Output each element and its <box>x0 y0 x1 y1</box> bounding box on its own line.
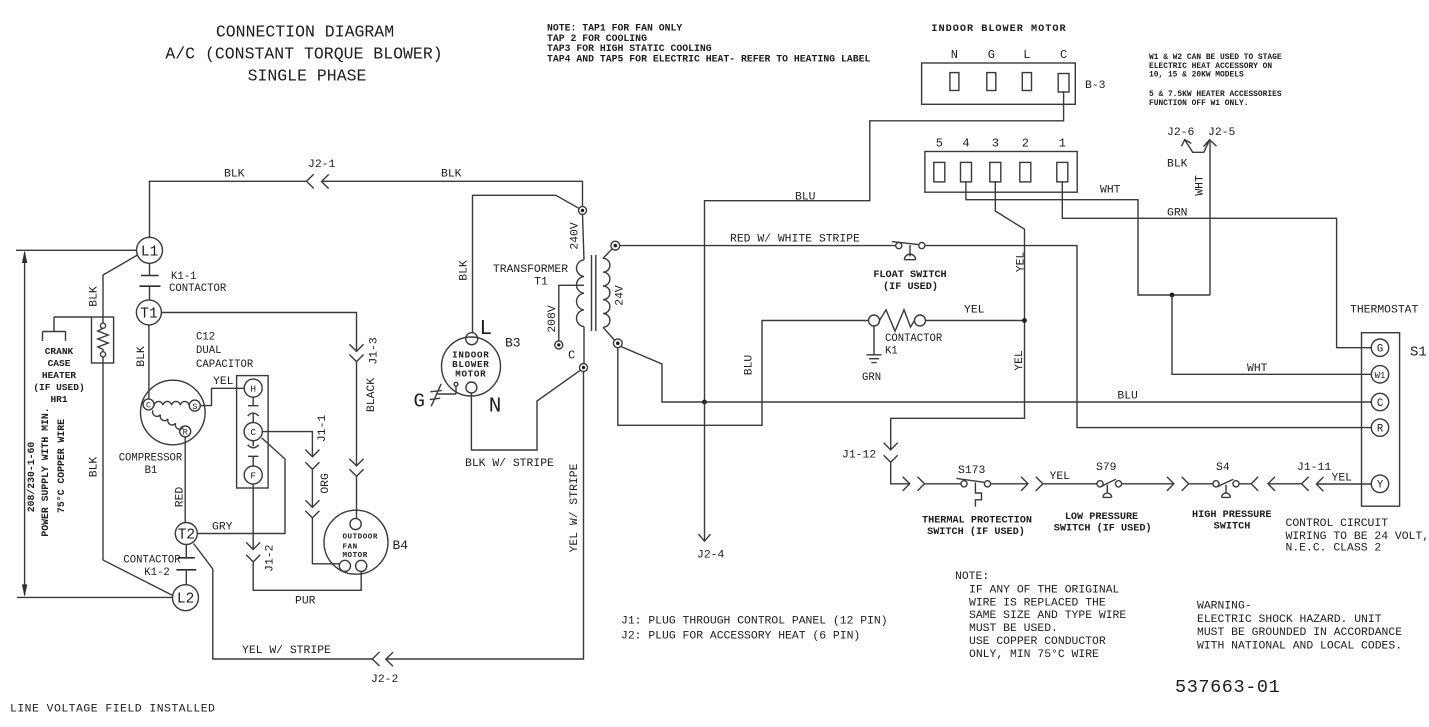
svg-text:BLU: BLU <box>795 192 816 204</box>
switch S4 high pressure <box>1213 479 1239 497</box>
svg-text:BLK W/ STRIPE: BLK W/ STRIPE <box>465 458 554 470</box>
wire YEL compressor S to capacitor H <box>200 388 244 405</box>
ground symbol contactor K1 <box>867 326 882 363</box>
wire PUR to fan motor lower-right terminal <box>253 562 361 590</box>
wire GRY T2 to capacitor C <box>197 438 285 534</box>
svg-text:FAN: FAN <box>343 543 358 551</box>
wire to S79 <box>1043 483 1097 485</box>
wire to S4 <box>1189 483 1213 485</box>
svg-text:C: C <box>568 349 575 363</box>
svg-text:R: R <box>1377 424 1384 436</box>
svg-text:J1-3: J1-3 <box>369 337 381 365</box>
svg-text:C: C <box>1060 48 1067 62</box>
svg-text:5: 5 <box>936 137 943 151</box>
connector J1 5-pin <box>925 152 1077 193</box>
thermostat S1 box <box>1362 333 1400 507</box>
connector J1-3 chevrons <box>349 344 363 361</box>
wire YEL W/ STRIPE to transformer C terminal <box>386 372 584 659</box>
wire to J1-11 <box>1268 483 1302 485</box>
svg-text:208V: 208V <box>547 305 559 333</box>
svg-text:CONTACTOR: CONTACTOR <box>885 333 943 345</box>
connector J1-12 chevrons <box>884 443 898 463</box>
wire T1 to compressor C <box>148 325 150 399</box>
svg-text:W1: W1 <box>1375 371 1386 381</box>
label HIGH PRESSURE SWITCH <box>1192 510 1271 533</box>
svg-text:YEL W/ STRIPE: YEL W/ STRIPE <box>569 463 581 552</box>
label TRANSFORMER T1 <box>493 264 568 289</box>
svg-text:24V: 24V <box>614 285 626 306</box>
svg-text:537663-01: 537663-01 <box>1175 677 1280 698</box>
thermostat terminal Y <box>1371 475 1388 492</box>
label COMPRESSOR B1 <box>119 453 183 478</box>
wire RED W/ WHITE STRIPE secondary top to float switch <box>620 245 896 247</box>
svg-text:B3: B3 <box>505 336 521 351</box>
svg-text:2: 2 <box>1022 137 1029 151</box>
svg-text:L: L <box>480 318 493 341</box>
svg-text:WIRE IS REPLACED THE: WIRE IS REPLACED THE <box>969 597 1106 609</box>
svg-text:C: C <box>250 427 256 438</box>
svg-text:SAME SIZE AND TYPE WIRE: SAME SIZE AND TYPE WIRE <box>969 610 1126 622</box>
connector chevrons below ORG <box>305 500 319 518</box>
capacitor terminal H <box>244 379 262 397</box>
pin labels N G L C <box>951 48 1067 62</box>
svg-text:T1: T1 <box>534 277 548 289</box>
wire L1 to left supply line <box>16 249 137 251</box>
svg-text:ORG: ORG <box>320 473 332 494</box>
svg-text:BLK: BLK <box>136 346 148 367</box>
svg-text:S1: S1 <box>1410 345 1427 361</box>
svg-text:TAP4 AND TAP5 FOR ELECTRIC HEA: TAP4 AND TAP5 FOR ELECTRIC HEAT- REFER T… <box>547 53 870 64</box>
wire BLU pin C to thermostat C junction <box>705 91 1064 402</box>
note: warning electric shock <box>1197 601 1402 653</box>
svg-text:S4: S4 <box>1216 462 1230 474</box>
svg-text:OUTDOOR: OUTDOOR <box>343 533 378 541</box>
svg-text:1: 1 <box>1059 137 1066 151</box>
wire YEL pin 3 <box>891 181 1025 450</box>
wire BLACK to fan motor top terminal <box>356 476 358 518</box>
dimension line power supply <box>22 251 27 597</box>
wire L2 to left supply line <box>17 596 173 598</box>
label CONTACTOR K1 <box>885 333 943 358</box>
svg-text:CONTACTOR: CONTACTOR <box>169 283 227 295</box>
capacitor element H-C <box>248 397 259 422</box>
terminal 24V secondary top <box>611 241 620 250</box>
crank case heater bracket <box>43 317 92 341</box>
capacitor terminal C <box>244 423 262 441</box>
svg-text:BLU: BLU <box>744 355 756 376</box>
thermostat terminal G <box>1371 339 1388 356</box>
label LOW PRESSURE SWITCH (IF USED) <box>1054 512 1152 535</box>
capacitor C12 box <box>237 376 269 488</box>
transformer 208V tap <box>559 285 584 341</box>
capacitor terminal F <box>244 466 262 484</box>
svg-text:MUST BE USED.: MUST BE USED. <box>969 623 1058 635</box>
wire ORG segment <box>311 469 313 507</box>
svg-text:N: N <box>489 396 502 419</box>
connector chevrons right pair <box>903 477 925 491</box>
svg-text:THERMAL PROTECTION: THERMAL PROTECTION <box>922 516 1032 527</box>
svg-text:WIRING TO BE 24 VOLT,: WIRING TO BE 24 VOLT, <box>1286 531 1429 543</box>
svg-text:A/C (CONSTANT TORQUE BLOWER): A/C (CONSTANT TORQUE BLOWER) <box>165 45 442 64</box>
svg-text:CASE: CASE <box>48 358 71 369</box>
wire BLK W/ STRIPE blower N to transformer C <box>471 370 580 450</box>
svg-text:YEL: YEL <box>1332 473 1353 485</box>
svg-text:WARNING-: WARNING- <box>1197 601 1252 613</box>
resistor HR1 <box>92 317 114 363</box>
svg-text:BLK: BLK <box>1167 159 1188 171</box>
svg-text:YEL: YEL <box>213 376 234 388</box>
connector chevrons <box>1167 477 1189 491</box>
svg-text:G: G <box>988 48 995 62</box>
svg-text:CAPACITOR: CAPACITOR <box>196 359 254 371</box>
svg-text:J1-12: J1-12 <box>842 450 876 462</box>
svg-text:C: C <box>146 401 151 411</box>
svg-text:ONLY, MIN 75°C WIRE: ONLY, MIN 75°C WIRE <box>969 649 1099 661</box>
terminal 240V (transformer primary top) <box>579 206 587 214</box>
svg-text:J1: PLUG THROUGH CONTROL PANEL: J1: PLUG THROUGH CONTROL PANEL (12 PIN) <box>621 616 888 628</box>
svg-text:RED W/ WHITE STRIPE: RED W/ WHITE STRIPE <box>730 234 860 246</box>
label C12 DUAL CAPACITOR <box>196 332 254 371</box>
svg-text:J1-1: J1-1 <box>317 415 329 443</box>
wire BLACK segment <box>356 362 358 466</box>
svg-text:SWITCH (IF USED): SWITCH (IF USED) <box>1054 523 1152 535</box>
svg-text:Y: Y <box>1377 480 1384 492</box>
connector J1-11 chevrons <box>1302 477 1324 492</box>
svg-text:B-3: B-3 <box>1085 80 1106 92</box>
svg-text:WITH NATIONAL AND LOCAL CODES.: WITH NATIONAL AND LOCAL CODES. <box>1197 640 1402 652</box>
svg-text:K1-1: K1-1 <box>171 271 196 283</box>
indoor blower motor B3 <box>442 333 501 396</box>
wire T1 to J1-3 <box>161 313 356 352</box>
wire S79 to chevrons <box>1122 483 1174 485</box>
svg-text:4: 4 <box>962 137 969 151</box>
svg-text:BLK: BLK <box>89 286 101 307</box>
note: wire replacement <box>955 571 1126 661</box>
contactor K1 coil <box>869 310 926 331</box>
wire BLK J2-1 to 240V terminal <box>322 181 583 206</box>
svg-text:BLACK: BLACK <box>366 378 378 412</box>
svg-text:HR1: HR1 <box>50 394 67 405</box>
terminal L2 <box>173 585 199 611</box>
svg-text:B1: B1 <box>145 465 158 477</box>
svg-text:75°C COPPER WIRE: 75°C COPPER WIRE <box>56 419 67 513</box>
svg-text:SINGLE PHASE: SINGLE PHASE <box>248 67 367 86</box>
wire BLK down to L2 <box>103 357 173 596</box>
wire BLK blower L to 240V terminal <box>473 195 579 332</box>
pin labels 5 4 3 2 1 <box>936 137 1066 151</box>
contact K1-2 <box>176 545 196 585</box>
svg-text:ELECTRIC SHOCK HAZARD. UNIT: ELECTRIC SHOCK HAZARD. UNIT <box>1197 614 1382 626</box>
terminal C (transformer primary bottom) <box>580 364 588 372</box>
svg-text:COMPRESSOR: COMPRESSOR <box>119 453 183 465</box>
svg-text:J1-11: J1-11 <box>1297 462 1331 474</box>
junction YEL node <box>1022 318 1027 323</box>
svg-text:RED: RED <box>174 487 186 508</box>
wire capacitor F to J1-2 <box>252 484 254 550</box>
float switch <box>892 242 925 260</box>
label K1-1 CONTACTOR <box>169 271 227 295</box>
svg-text:H: H <box>250 384 256 395</box>
svg-text:TRANSFORMER: TRANSFORMER <box>493 264 568 276</box>
wire to S173 <box>925 483 962 485</box>
wire WHT junction to thermostat W1 <box>1172 295 1371 374</box>
label 208/230-1-60 power supply (rotated) <box>26 407 67 536</box>
svg-text:GRY: GRY <box>212 522 233 534</box>
svg-text:R: R <box>183 428 188 438</box>
svg-text:MOTOR: MOTOR <box>343 552 368 560</box>
svg-text:SWITCH: SWITCH <box>1214 522 1251 533</box>
wire ORG to fan motor lower-left terminal <box>312 518 339 564</box>
connector J1-2 chevrons <box>246 542 260 562</box>
label OUTDOOR FAN MOTOR <box>343 533 378 560</box>
svg-text:CONTROL CIRCUIT: CONTROL CIRCUIT <box>1286 518 1389 530</box>
svg-text:C12: C12 <box>196 332 215 344</box>
svg-text:WHT: WHT <box>1194 175 1206 196</box>
svg-text:GRN: GRN <box>1167 208 1188 220</box>
svg-text:T2: T2 <box>178 528 195 544</box>
wire BLK L1 up to J2-1 line <box>150 181 307 237</box>
svg-text:HEATER: HEATER <box>42 370 77 381</box>
svg-text:NOTE:: NOTE: <box>955 571 989 583</box>
wire S4 to left chevrons <box>1239 483 1251 485</box>
svg-text:MUST BE GROUNDED IN ACCORDANCE: MUST BE GROUNDED IN ACCORDANCE <box>1197 627 1402 639</box>
wire WHT pin 4 <box>966 181 1210 295</box>
svg-text:10, 15 & 20KW MODELS: 10, 15 & 20KW MODELS <box>1149 71 1244 80</box>
switch S79 low pressure <box>1097 479 1122 497</box>
svg-text:G: G <box>1377 344 1383 356</box>
svg-text:S79: S79 <box>1096 462 1117 474</box>
compressor B1 <box>141 380 206 445</box>
thermostat terminal W1 <box>1371 366 1388 383</box>
wire GRN pin 1 to thermostat G <box>1062 181 1371 348</box>
connector J2-4 arrow <box>699 534 711 541</box>
svg-text:N.E.C. CLASS 2: N.E.C. CLASS 2 <box>1286 543 1382 555</box>
svg-text:BLK: BLK <box>224 169 245 181</box>
thermostat terminal C <box>1371 393 1388 410</box>
svg-text:FUNCTION OFF W1 ONLY.: FUNCTION OFF W1 ONLY. <box>1149 99 1248 108</box>
svg-text:CONNECTION DIAGRAM: CONNECTION DIAGRAM <box>216 23 394 42</box>
wire S173 to chevrons <box>991 483 1028 485</box>
connector J2-1 chevrons <box>307 174 329 188</box>
svg-text:J2-1: J2-1 <box>308 159 336 171</box>
connector J1-1 chevrons <box>305 450 319 470</box>
svg-text:GRN: GRN <box>862 372 881 384</box>
note: tap usage <box>547 23 870 65</box>
switch S173 thermal protection <box>957 478 991 506</box>
svg-text:BLK: BLK <box>89 457 101 478</box>
connector J2-2 chevrons <box>372 652 393 666</box>
svg-text:S: S <box>192 402 197 412</box>
svg-text:CONTACTOR: CONTACTOR <box>123 555 181 567</box>
svg-text:B4: B4 <box>393 538 409 553</box>
wire 24V secondary bottom branch to BLU junction <box>621 347 705 403</box>
wire RED W/ WHITE STRIPE to thermostat R <box>925 246 1371 428</box>
terminal L1 <box>137 237 163 263</box>
terminal 208V tap <box>555 341 563 349</box>
svg-text:ELECTRIC HEAT ACCESSORY ON: ELECTRIC HEAT ACCESSORY ON <box>1149 62 1272 71</box>
label CRANK CASE HEATER (IF USED) HR1 <box>33 346 84 405</box>
svg-text:J2-6: J2-6 <box>1167 127 1195 139</box>
wire J1-12 to switch chain <box>891 462 910 484</box>
wire BLK L1 diagonal down left column <box>103 255 138 323</box>
svg-text:W1 & W2 CAN BE USED TO STAGE: W1 & W2 CAN BE USED TO STAGE <box>1149 53 1282 62</box>
svg-text:INDOOR BLOWER MOTOR: INDOOR BLOWER MOTOR <box>931 24 1066 35</box>
svg-text:YEL: YEL <box>964 305 985 317</box>
terminal 24V secondary bottom <box>613 339 622 348</box>
wire J2-4 drop <box>704 402 706 541</box>
svg-text:IF ANY OF THE ORIGINAL: IF ANY OF THE ORIGINAL <box>969 584 1120 596</box>
svg-text:WHT: WHT <box>1247 363 1268 375</box>
contact K1-1 <box>140 263 161 300</box>
svg-text:240V: 240V <box>569 222 581 250</box>
svg-text:K1: K1 <box>885 346 898 358</box>
svg-text:G: G <box>414 391 425 413</box>
svg-text:YEL: YEL <box>1014 350 1026 371</box>
svg-text:BLK: BLK <box>459 260 471 281</box>
svg-text:208/230-1-60: 208/230-1-60 <box>26 442 37 513</box>
terminal T2 <box>175 523 197 545</box>
terminal T1 <box>136 300 161 325</box>
ground pin wire of blower motor <box>438 386 457 394</box>
wire RED compressor R to T2 <box>184 437 186 523</box>
wire YEL W/ STRIPE from T2 down <box>194 544 373 660</box>
svg-text:BLK: BLK <box>441 169 462 181</box>
svg-text:LINE VOLTAGE FIELD INSTALLED: LINE VOLTAGE FIELD INSTALLED <box>10 704 215 716</box>
svg-text:C: C <box>1377 398 1383 410</box>
label FLOAT SWITCH (IF USED) <box>873 270 946 293</box>
svg-text:YEL W/ STRIPE: YEL W/ STRIPE <box>242 645 331 657</box>
svg-text:CRANK: CRANK <box>45 346 74 357</box>
svg-text:3: 3 <box>992 137 999 151</box>
connector J2-5 wire and arrow <box>1209 142 1211 296</box>
svg-text:J2-2: J2-2 <box>371 674 399 686</box>
svg-text:YEL: YEL <box>1015 252 1027 273</box>
thermostat terminal R <box>1371 419 1388 436</box>
svg-text:5 & 7.5KW HEATER ACCESSORIES: 5 & 7.5KW HEATER ACCESSORIES <box>1149 90 1282 99</box>
ground plug symbol G <box>430 384 442 407</box>
svg-text:PUR: PUR <box>295 596 316 608</box>
svg-text:BLU: BLU <box>1117 391 1138 403</box>
outdoor fan motor B4 <box>324 510 388 574</box>
transformer T1 core <box>592 255 596 331</box>
svg-text:K1-2: K1-2 <box>144 567 169 579</box>
label CONTACTOR K1-2 <box>123 555 181 580</box>
svg-text:DUAL: DUAL <box>196 345 221 357</box>
connector chevrons left pair <box>1251 477 1275 491</box>
svg-text:L: L <box>1023 48 1030 62</box>
svg-text:HIGH PRESSURE: HIGH PRESSURE <box>1192 510 1271 521</box>
wire 24V secondary bottom to contactor K1 coil <box>618 321 869 426</box>
svg-text:(IF USED): (IF USED) <box>883 281 938 293</box>
wire YEL to thermostat Y <box>1316 483 1371 485</box>
label CONTROL CIRCUIT WIRING <box>1286 518 1429 555</box>
svg-text:LOW PRESSURE: LOW PRESSURE <box>1065 512 1138 523</box>
label THERMAL PROTECTION SWITCH (IF USED) <box>922 516 1032 539</box>
wire BLU junction to thermostat C <box>705 401 1372 403</box>
svg-text:T1: T1 <box>140 306 157 322</box>
svg-text:THERMOSTAT: THERMOSTAT <box>1350 305 1419 317</box>
junction WHT node <box>1170 293 1175 298</box>
transformer T1 secondary winding <box>603 249 614 340</box>
connector chevrons below BLACK <box>349 459 363 477</box>
svg-text:L2: L2 <box>177 592 194 608</box>
svg-text:USE COPPER CONDUCTOR: USE COPPER CONDUCTOR <box>969 636 1106 648</box>
svg-text:(IF USED): (IF USED) <box>33 382 84 393</box>
junction BLU node <box>702 400 707 405</box>
connector B-3 indoor blower motor <box>922 63 1076 104</box>
svg-text:J2-5: J2-5 <box>1208 127 1236 139</box>
svg-text:J1-2: J1-2 <box>265 544 277 572</box>
note: W1 W2 staging <box>1149 53 1282 108</box>
connector chevrons <box>1021 477 1043 491</box>
wire capacitor C to J1-1 <box>262 432 312 457</box>
svg-text:SWITCH (IF USED): SWITCH (IF USED) <box>927 526 1025 538</box>
svg-text:J2-4: J2-4 <box>697 550 725 562</box>
wire YEL contactor K1 to junction <box>926 320 1025 322</box>
svg-text:J2: PLUG FOR ACCESSORY HEAT (6: J2: PLUG FOR ACCESSORY HEAT (6 PIN) <box>621 630 860 642</box>
svg-text:N: N <box>951 48 958 62</box>
svg-text:FLOAT SWITCH: FLOAT SWITCH <box>873 270 946 281</box>
svg-text:POWER SUPPLY WITH MIN.: POWER SUPPLY WITH MIN. <box>40 407 51 536</box>
transformer T1 primary winding <box>577 214 584 363</box>
svg-text:WHT: WHT <box>1100 185 1121 197</box>
svg-text:S173: S173 <box>958 465 986 477</box>
svg-text:L1: L1 <box>141 244 158 260</box>
connector J2-6 arrow <box>1182 140 1210 153</box>
capacitor element C-F <box>248 441 259 466</box>
svg-text:YEL: YEL <box>1050 471 1071 483</box>
label INDOOR BLOWER MOTOR (inner) <box>452 350 489 380</box>
title: CONNECTION DIAGRAM <box>165 23 442 86</box>
svg-text:MOTOR: MOTOR <box>455 369 486 380</box>
svg-text:F: F <box>250 471 256 482</box>
note: J1 J2 plug legend <box>621 616 888 643</box>
